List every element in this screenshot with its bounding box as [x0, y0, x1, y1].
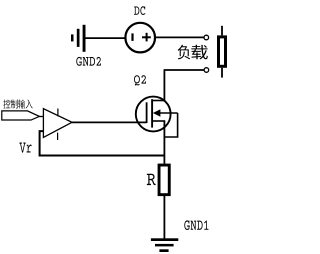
op-amp [43, 109, 72, 141]
wire input upper [39, 116, 43, 118]
wire feedback [40, 131, 165, 155]
load resistor [219, 26, 226, 78]
wire [163, 196, 165, 239]
label Vr [19, 143, 31, 153]
label DC [134, 6, 145, 15]
label GND2 [76, 57, 101, 66]
wire gate [72, 121, 147, 123]
transistor Q2 [136, 97, 178, 132]
wire [155, 36, 205, 38]
resistor R [159, 165, 169, 195]
DC source [125, 23, 155, 53]
wire wrap [164, 113, 178, 137]
terminal top [204, 35, 209, 40]
terminal bottom [204, 68, 209, 73]
ground GND1 [151, 238, 178, 252]
label GND1 [184, 220, 208, 230]
label R [147, 174, 156, 185]
wire [86, 37, 127, 39]
wire source [163, 121, 165, 164]
label 负载 [178, 45, 208, 60]
callout 控制输入 [2, 111, 40, 120]
wire [164, 69, 205, 71]
ground GND2 [71, 25, 86, 52]
wire drain [163, 70, 165, 101]
label Q2 [134, 75, 146, 85]
